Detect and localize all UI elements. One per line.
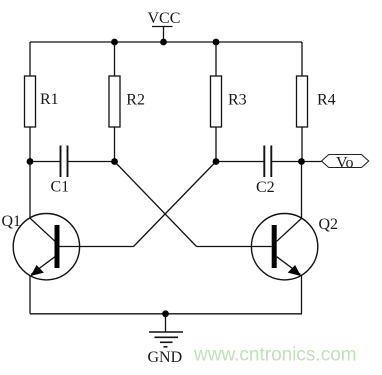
svg-text:Vo: Vo — [336, 155, 354, 172]
wire Q2 base horizontal — [197, 246, 272, 248]
node Vo output flag — [322, 155, 369, 172]
wire Q2 emitter vertical — [301, 275, 303, 313]
svg-text:R1: R1 — [40, 91, 59, 108]
resistor R2 — [109, 76, 145, 127]
svg-text:C2: C2 — [256, 179, 275, 196]
node C1/R2/cross junction dot — [111, 158, 118, 165]
node C2/R4/Vo junction dot — [298, 158, 305, 165]
svg-text:GND: GND — [148, 349, 183, 366]
wire ground stem — [165, 314, 167, 332]
wire Q2 collector vertical — [301, 162, 303, 219]
svg-text:R2: R2 — [126, 92, 145, 109]
wire R2 bottom lead — [114, 127, 116, 162]
wire R1 top lead — [29, 42, 31, 76]
wire R3 bottom lead — [215, 127, 217, 162]
svg-text:R3: R3 — [228, 92, 247, 109]
wire C1 left lead — [30, 161, 60, 163]
svg-text:Q2: Q2 — [319, 216, 339, 233]
wire R2 top lead — [114, 42, 116, 76]
svg-text:VCC: VCC — [148, 10, 181, 27]
wire Q1 collector vertical — [29, 162, 31, 219]
wire C1 right lead — [68, 161, 115, 163]
resistor R4 — [297, 76, 336, 127]
VCC bar — [152, 26, 173, 28]
wire VCC stem — [163, 27, 165, 43]
transistor Q1 — [2, 213, 80, 280]
wire C2 left lead — [216, 161, 264, 163]
wire Vo lead — [302, 161, 322, 163]
wire top rail VCC — [30, 41, 302, 43]
resistor R1 — [25, 76, 59, 127]
wire Q1 emitter vertical — [29, 275, 31, 313]
node ground junction dot — [162, 310, 169, 317]
wire R4 top lead — [301, 42, 303, 76]
svg-text:R4: R4 — [317, 92, 336, 109]
wire R4 bottom lead — [301, 127, 303, 162]
capacitor C1 — [51, 146, 70, 196]
ground — [149, 332, 183, 347]
wire R3 top lead — [215, 42, 217, 76]
wire C2 right lead — [272, 161, 302, 163]
node R3 top junction dot — [213, 39, 220, 46]
svg-text:www.cntronics.com: www.cntronics.com — [193, 345, 357, 366]
wire Q1 base horizontal — [60, 246, 134, 248]
node VCC junction dot — [160, 39, 167, 46]
node R2 top junction dot — [111, 39, 118, 46]
transistor Q2 — [251, 214, 338, 280]
svg-text:Q1: Q1 — [2, 213, 22, 230]
wire bottom rail — [30, 313, 302, 315]
node R3/C2/cross junction dot — [213, 158, 220, 165]
resistor R3 — [211, 76, 247, 127]
capacitor C2 — [256, 146, 275, 197]
wire R1 bottom lead — [29, 127, 31, 162]
wire cross-couple B: C2/R3 node to Q1 base — [134, 162, 217, 247]
wire cross-couple A: C1/R2 node to Q2 base — [115, 162, 197, 247]
svg-text:C1: C1 — [51, 179, 70, 196]
node R1/C1/Q1-collector junction dot — [27, 158, 34, 165]
